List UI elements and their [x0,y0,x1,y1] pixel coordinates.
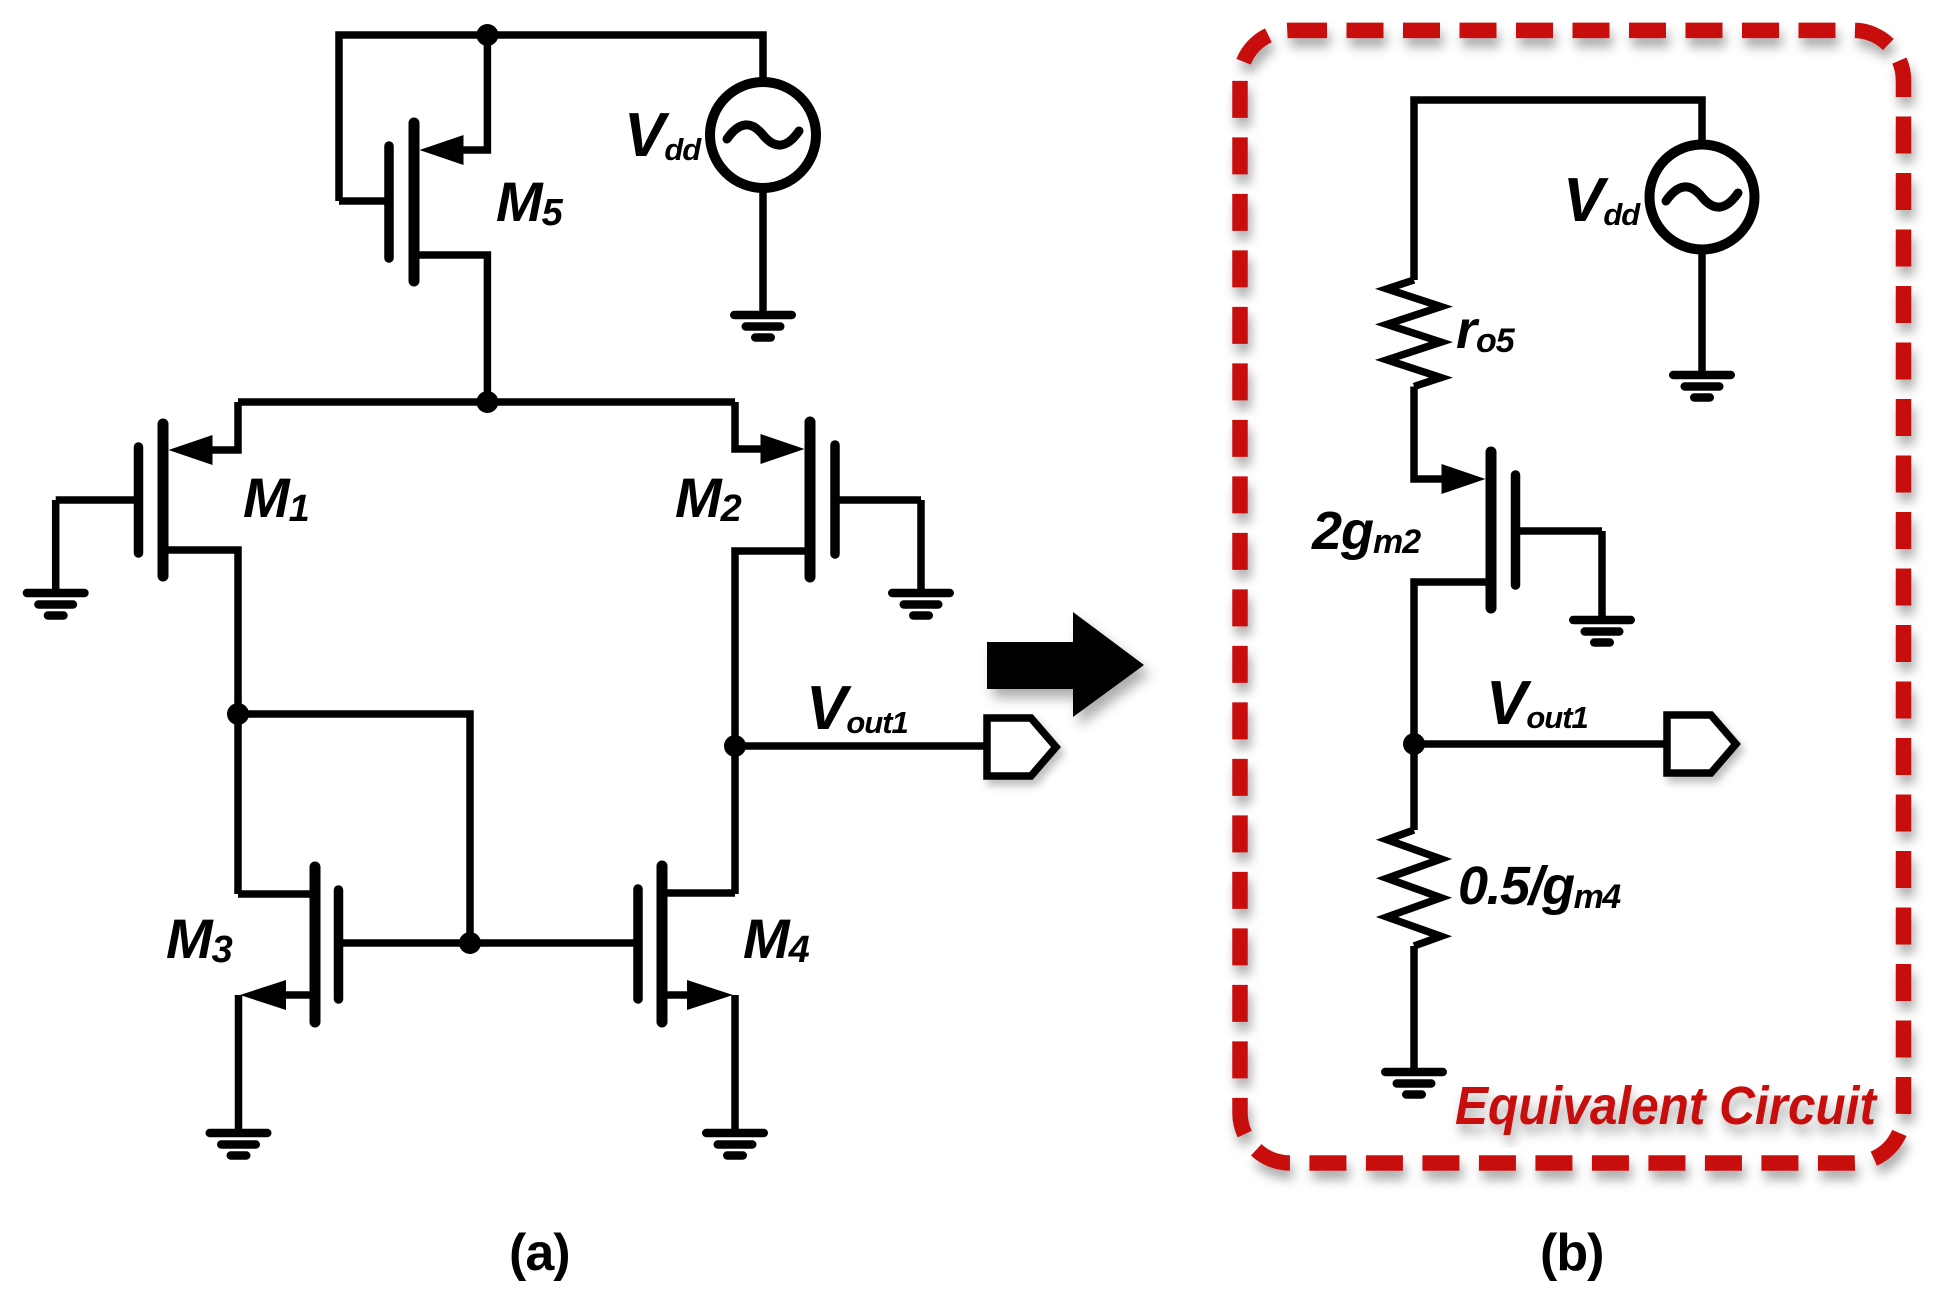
svg-text:(b): (b) [1540,1224,1603,1282]
svg-text:Equivalent Circuit: Equivalent Circuit [1455,1076,1878,1136]
svg-text:(a): (a) [509,1224,570,1282]
